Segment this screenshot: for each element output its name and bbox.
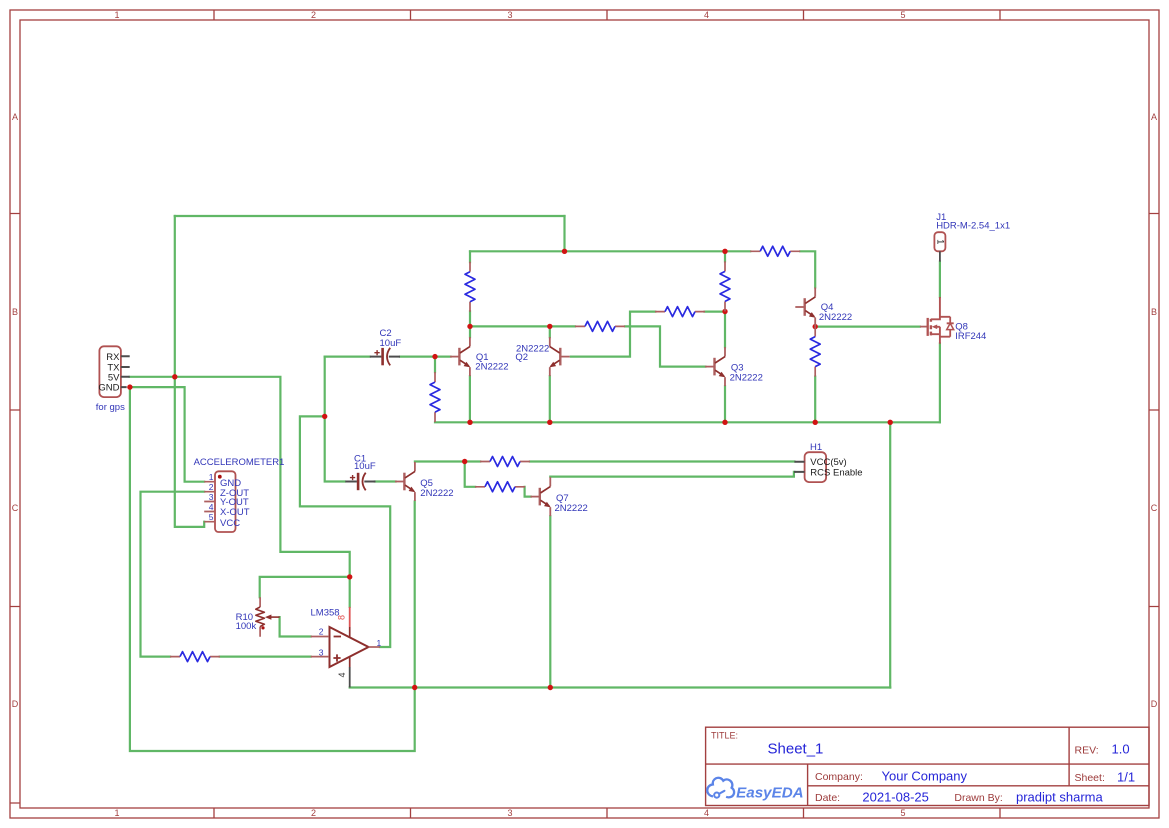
svg-text:1/1: 1/1 — [1117, 769, 1135, 784]
wire 5V row to opamp V+ — [130, 377, 350, 607]
svg-text:C: C — [1151, 503, 1158, 513]
transistor Q7 — [530, 477, 552, 516]
svg-text:1: 1 — [114, 808, 119, 818]
node Q4 emitter — [813, 324, 818, 329]
node Q1 collector — [467, 324, 472, 329]
svg-text:H1: H1 — [810, 442, 822, 453]
svg-text:B: B — [1151, 307, 1157, 317]
node Q2 collector — [547, 324, 552, 329]
node rail2 a — [562, 249, 567, 254]
wire Q2 collector stub — [549, 326, 551, 337]
wire Q5 collector row1 — [415, 460, 795, 462]
svg-text:8: 8 — [337, 615, 347, 620]
svg-text:RX: RX — [106, 352, 120, 363]
svg-text:2: 2 — [311, 808, 316, 818]
svg-text:Drawn By:: Drawn By: — [954, 792, 1002, 804]
wire row1 drop to row2 — [465, 462, 531, 497]
wire Q5 emitter long vertical + gnd loop — [130, 387, 415, 751]
transistor Q3 — [705, 347, 727, 386]
svg-text:2N2222: 2N2222 — [555, 503, 588, 514]
wire C2 to C1 left vertical — [325, 357, 396, 482]
resistor horizontal Q2 base — [655, 307, 705, 317]
connector J1 — [934, 232, 945, 261]
node rail4 c — [722, 420, 727, 425]
wire accel Z-OUT to resistor row — [141, 492, 311, 657]
svg-text:2: 2 — [209, 482, 214, 492]
connector H1 — [794, 452, 826, 482]
svg-text:2N2222: 2N2222 — [420, 488, 453, 499]
connector ACCELEROMETER1 — [204, 471, 235, 532]
svg-text:IRF244: IRF244 — [955, 331, 986, 342]
ruler ticks right — [1149, 214, 1159, 607]
node rail4 a — [467, 420, 472, 425]
wire Q7 emitter down — [549, 516, 551, 687]
wire top rail drop to collector rail — [563, 216, 565, 251]
resistor horizontal opamp pin3 — [170, 652, 220, 662]
wire C2 net left — [325, 356, 451, 358]
svg-text:GND: GND — [98, 383, 119, 394]
node Q3 collector — [722, 309, 727, 314]
svg-text:1: 1 — [209, 472, 214, 482]
transistor Q5 — [395, 462, 417, 501]
svg-text:10uF: 10uF — [354, 461, 376, 472]
wire emitter rail y=422.3 — [435, 421, 940, 423]
accel pin names — [220, 478, 250, 529]
svg-text:2N2222: 2N2222 — [730, 372, 763, 383]
node rail4 b — [547, 420, 552, 425]
svg-text:for gps: for gps — [96, 402, 125, 413]
resistor vertical C2 bias — [430, 372, 440, 422]
svg-text:2: 2 — [319, 627, 324, 637]
svg-text:D: D — [1151, 699, 1158, 709]
svg-text:RCS Enable: RCS Enable — [810, 467, 862, 478]
wire Q1 emitter — [469, 376, 471, 422]
wire Q7 collector to H1 pin2 — [550, 472, 794, 477]
svg-text:2021-08-25: 2021-08-25 — [862, 789, 929, 804]
node Q5 collector — [462, 459, 467, 464]
capacitor C1 — [345, 473, 375, 491]
node pin4 rail a — [412, 685, 417, 690]
svg-text:Company:: Company: — [815, 771, 863, 783]
node rail4 e — [888, 420, 893, 425]
op-amp U1 LM358 — [311, 607, 380, 688]
wire base rail y=326.4 — [470, 326, 705, 366]
transistor Q4 — [795, 288, 817, 327]
wire gnd to accel pin1 — [130, 387, 204, 482]
svg-text:1: 1 — [377, 638, 382, 648]
wire collector rail y=251.3 — [470, 251, 815, 287]
resistor horizontal row2 — [475, 482, 525, 492]
svg-text:A: A — [12, 112, 18, 122]
ruler ticks bottom — [214, 808, 1000, 818]
wire Q1 collector branch — [469, 251, 471, 337]
svg-text:D: D — [12, 699, 19, 709]
svg-text:1: 1 — [114, 10, 119, 20]
svg-text:Your Company: Your Company — [882, 769, 968, 784]
svg-text:4: 4 — [704, 808, 709, 818]
svg-text:C: C — [12, 503, 19, 513]
svg-text:4: 4 — [209, 502, 214, 512]
node opamp V+ — [347, 574, 352, 579]
svg-text:5: 5 — [900, 10, 905, 20]
wire right vertical to pin4 rail — [889, 422, 891, 687]
wire R10 top link — [260, 577, 350, 597]
connector GPS (RX TX 5V GND) — [99, 346, 129, 397]
ruler ticks top — [214, 10, 1000, 20]
svg-text:4: 4 — [337, 672, 347, 677]
wire C2 bias resistor drop — [434, 357, 436, 373]
capacitor C2 — [370, 348, 400, 366]
svg-text:Sheet_1: Sheet_1 — [768, 740, 824, 757]
resistor horizontal base rail — [575, 321, 625, 331]
wire mosfet source to rail — [939, 344, 941, 423]
svg-text:5: 5 — [209, 512, 214, 522]
opamp pin numbers — [319, 615, 382, 678]
svg-text:Q2: Q2 — [515, 352, 528, 363]
svg-text:ACCELEROMETER1: ACCELEROMETER1 — [194, 457, 285, 468]
wire top rail 5V — [175, 215, 565, 217]
svg-text:3: 3 — [507, 10, 512, 20]
svg-text:REV:: REV: — [1075, 744, 1099, 756]
wire Q3 emitter — [724, 386, 726, 422]
potentiometer R10 — [256, 597, 280, 637]
TITLE BLOCK — [706, 727, 1149, 805]
wire Q2 emitter — [549, 376, 551, 422]
svg-text:LM358: LM358 — [311, 607, 340, 618]
svg-text:Sheet:: Sheet: — [1075, 772, 1105, 784]
resistor horizontal row1 — [480, 457, 530, 467]
wire mosfet drain to J1 — [939, 262, 941, 297]
svg-text:2N2222: 2N2222 — [475, 361, 508, 372]
wire Q4 resistor to rail — [814, 377, 816, 423]
svg-text:pradipt sharma: pradipt sharma — [1016, 789, 1103, 804]
transistor Q2 (mirrored) — [548, 337, 570, 376]
wire opamp out feedback to C1/C2 — [300, 416, 390, 647]
gps pin names — [98, 352, 120, 394]
EasyEDA logo — [707, 778, 803, 802]
svg-text:VCC: VCC — [220, 518, 240, 529]
resistor vertical Q4 emitter — [810, 327, 820, 377]
mosfet Q8 IRF244 — [920, 297, 954, 344]
resistor vertical Q3 collector — [720, 261, 730, 311]
svg-text:4: 4 — [704, 10, 709, 20]
svg-text:2: 2 — [311, 10, 316, 20]
resistor horizontal rail2 — [750, 246, 800, 256]
svg-text:B: B — [12, 307, 18, 317]
svg-text:2N2222: 2N2222 — [819, 312, 852, 323]
node feedback — [322, 414, 327, 419]
svg-text:1: 1 — [934, 239, 945, 244]
svg-text:100k: 100k — [236, 621, 257, 632]
node Q1 base — [432, 354, 437, 359]
node rail4 d — [813, 420, 818, 425]
svg-text:TITLE:: TITLE: — [711, 731, 738, 741]
svg-text:3: 3 — [209, 492, 214, 502]
svg-text:10uF: 10uF — [380, 338, 402, 349]
svg-text:A: A — [1151, 112, 1157, 122]
svg-text:3: 3 — [507, 808, 512, 818]
h1 pin names — [810, 457, 862, 478]
wire pin4 rail y=687.5 — [350, 686, 891, 688]
svg-text:3: 3 — [319, 648, 324, 658]
svg-text:Date:: Date: — [815, 792, 840, 804]
svg-text:EasyEDA: EasyEDA — [736, 784, 803, 801]
svg-text:5: 5 — [900, 808, 905, 818]
wire Q4 gate row to mosfet — [815, 326, 920, 328]
node pin4 rail b — [548, 685, 553, 690]
wire Q3 collector resistor — [724, 251, 726, 347]
accel pin numbers — [209, 472, 214, 522]
node GND gps — [127, 384, 132, 389]
wire Q2 base loop — [571, 312, 725, 357]
ruler ticks left — [10, 214, 20, 804]
svg-text:HDR-M-2.54_1x1: HDR-M-2.54_1x1 — [936, 220, 1010, 231]
resistor vertical Q1 collector — [465, 262, 475, 312]
svg-text:1.0: 1.0 — [1112, 741, 1130, 756]
wire R10 wiper to pin2 — [280, 617, 311, 636]
wire left vertical 5V/VCC accel — [175, 216, 204, 527]
svg-text:X-OUT: X-OUT — [220, 507, 250, 518]
transistor Q1 — [450, 337, 472, 376]
node rail2 b — [722, 249, 727, 254]
node 5V-accel — [172, 374, 177, 379]
